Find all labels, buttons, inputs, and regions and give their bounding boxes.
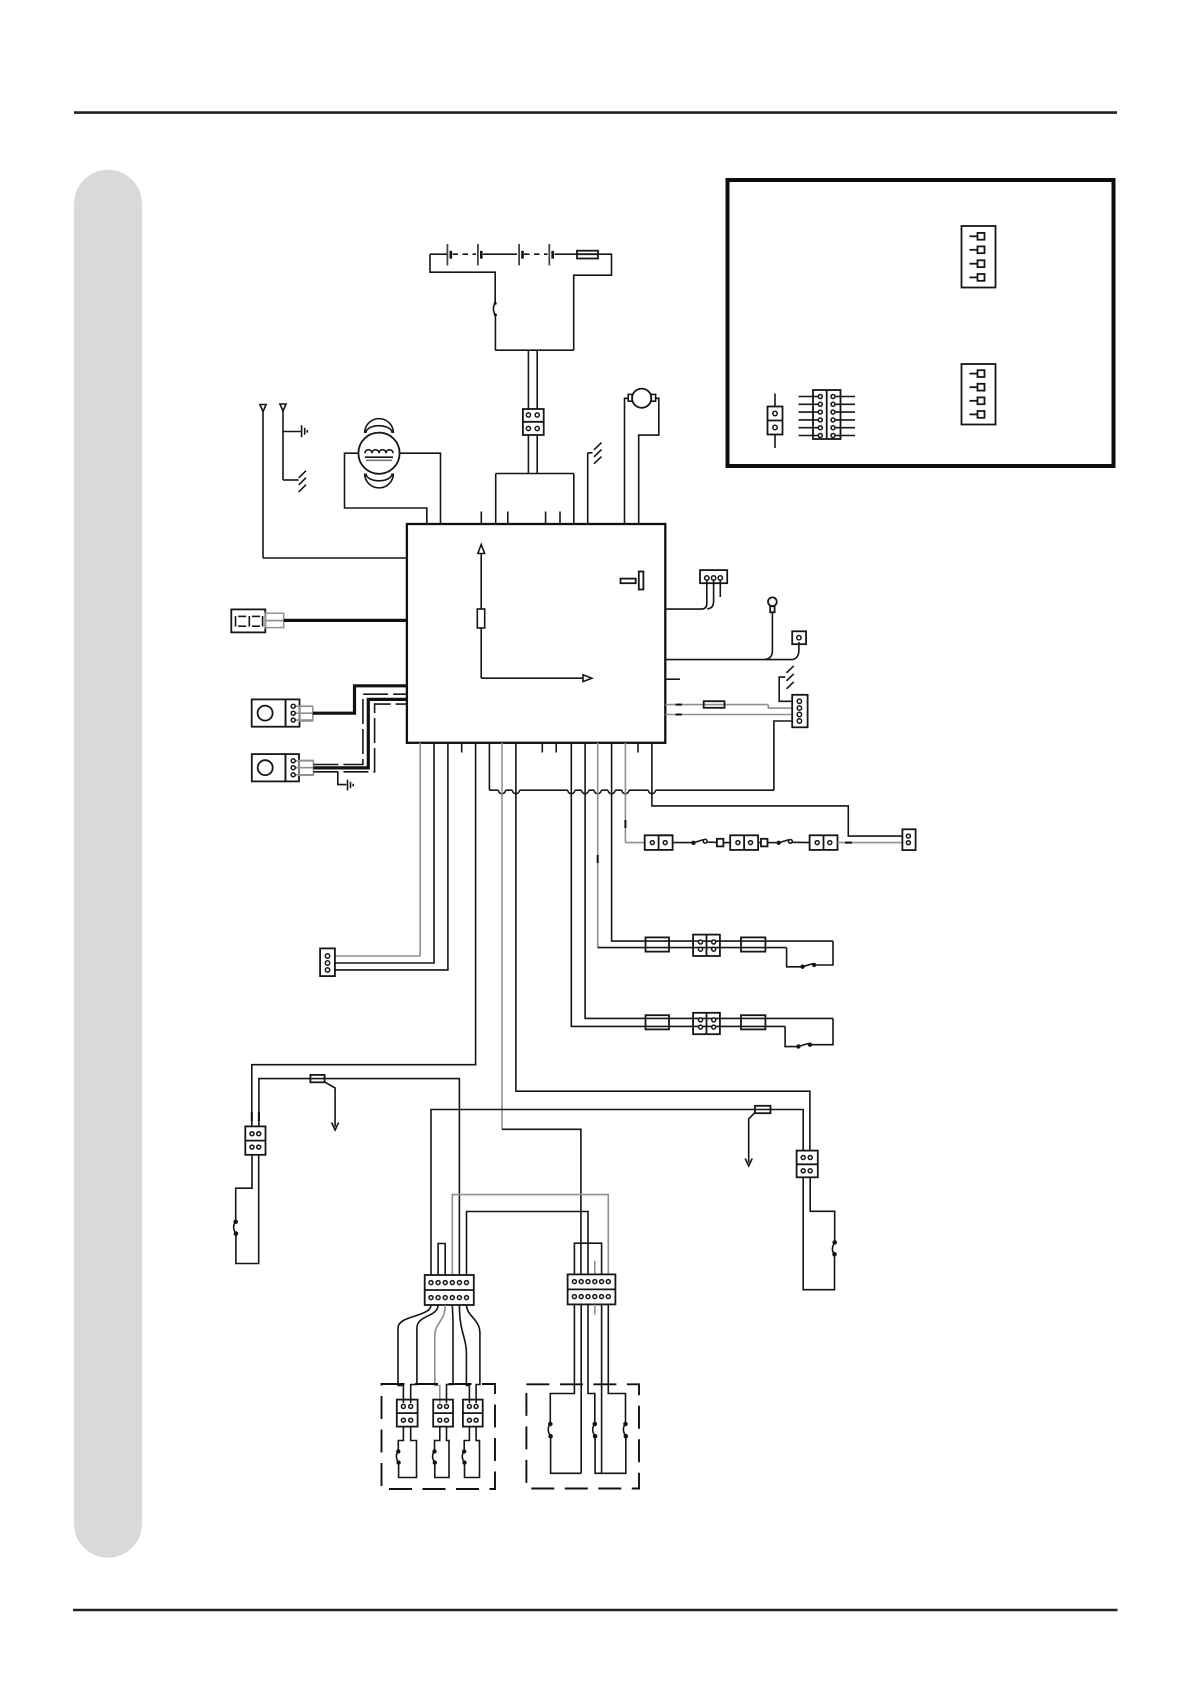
- left sidebar capsule: [74, 170, 142, 1558]
- connector J4 (4-pin right): [792, 695, 807, 728]
- top rule: [74, 111, 1117, 114]
- ground G3: [348, 780, 354, 791]
- indicator lamp LP1: [768, 597, 777, 612]
- wire pin B1 link to block JB2: [502, 1129, 581, 1274]
- wire battery dashed links: [453, 253, 477, 255]
- wire injector loop1 bottom: [551, 1437, 582, 1473]
- wire ECU pin C1 to coil row2 lower: [571, 743, 785, 1027]
- wire row1 upper right leg: [816, 941, 833, 965]
- wire ECU pin A2 to J5: [335, 743, 434, 963]
- solenoid loop SA with switch S8: [396, 1427, 416, 1478]
- battery B1: [430, 244, 577, 265]
- wire right latch loop with switch S7: [803, 1177, 836, 1289]
- wire SEN2 pin2 to ECU (thick): [313, 699, 407, 768]
- wire dark marks above J13: [252, 1112, 259, 1121]
- wire JB2 pin3 to injector loop2: [588, 1304, 595, 1422]
- wire JB1 pin5 to JCc top-left: [459, 1305, 469, 1403]
- connector block JB2 (right 12-pin): [568, 1274, 616, 1304]
- fuse F1 (main fuse): [577, 251, 598, 259]
- wire motor left to ECU: [625, 398, 629, 524]
- arrow continuation A2: [745, 1113, 755, 1167]
- wire SEN2 pin1 to ECU (dashed): [313, 694, 407, 764]
- ground G4 (slashes): [787, 666, 794, 689]
- solenoid connector JBc (2x2): [433, 1400, 453, 1427]
- coil row1 fuse FL1: [646, 937, 670, 951]
- wire JB1 pin2 to JA top-right: [411, 1305, 438, 1403]
- wire R1 step to J4 pin2: [768, 705, 792, 709]
- solenoid connector JCc (2x2): [463, 1400, 483, 1427]
- sensor SEN1: [252, 699, 313, 726]
- wire injector loop3 bottom: [602, 1437, 626, 1473]
- bottom rule: [73, 1609, 1118, 1612]
- connector CN3 (2-pin, inset box): [768, 394, 783, 449]
- connector J5 (3-pin left): [320, 948, 335, 976]
- wire J1 to spread right: [536, 435, 538, 474]
- connector J10 (right end 2-pin): [902, 829, 915, 850]
- connector J13 (left latch 2x2): [245, 1126, 265, 1154]
- wire spread left leg into ECU: [495, 474, 497, 525]
- wire J2 pin1 down: [701, 580, 707, 609]
- switch S5 (coil row2): [797, 1043, 811, 1048]
- wire ECU pin C4 to coil row1 upper: [612, 743, 833, 941]
- wire motor right to ECU: [639, 398, 659, 524]
- wire JB2 pin5 straight down: [601, 1304, 603, 1473]
- wire ANT1 to ECU: [263, 557, 407, 559]
- wire sense line with ground slashes: [588, 443, 602, 524]
- wire fused link L4 to right latch: [431, 1106, 803, 1275]
- wire ECU bus to J3: [665, 659, 792, 661]
- wire JB1 pin4 to JBc top-right: [447, 1305, 454, 1403]
- wire staple left block: [438, 1244, 445, 1276]
- wire ground bracket to J4: [779, 677, 792, 701]
- wire fuse row seg1: [673, 842, 693, 844]
- wire J8 to J10: [838, 842, 903, 844]
- antenna ANT1: [260, 405, 266, 559]
- coil row2 connector J12: [693, 1013, 720, 1034]
- connector J6 (fuse row left 2-pin): [645, 835, 673, 850]
- wire ECU to J4 pin3: [665, 714, 792, 716]
- wire SEN2 pin3 to ECU (dashed): [313, 704, 407, 772]
- wire JB2 pin6 to injector loop3: [608, 1304, 625, 1422]
- wire J2 pin3 stub: [719, 580, 721, 597]
- wire ECU pin C6 to J10 top: [652, 743, 903, 836]
- wire switch to bus: [494, 316, 496, 350]
- ECU internal jumper symbol: [621, 572, 644, 590]
- wire ECU to J2 pins: [665, 608, 702, 610]
- wire staple right block: [574, 1243, 601, 1274]
- wire bus horizontal: [495, 349, 574, 351]
- display module DS1: [231, 609, 283, 632]
- wire ECU pin C2 to coil row2 upper: [585, 743, 833, 1019]
- wire drop right to connector J1: [536, 350, 538, 409]
- ECU control unit U1: [407, 524, 665, 743]
- wire display to ECU (thick): [284, 619, 407, 622]
- wire JB1 pin1 to JA top-left: [398, 1305, 431, 1403]
- wire JB2 pin4 gray stub: [594, 1304, 596, 1314]
- coil row2 fuse FL3: [646, 1015, 670, 1029]
- wire ECU pin A4 to brake loop left: [252, 743, 476, 1127]
- wire battery left down: [430, 254, 495, 302]
- connector CN4 (12-pin, inset box): [799, 390, 856, 439]
- switch S2 (fuse row): [692, 839, 707, 844]
- wire ECU pin B1 (gray) long to relay block: [501, 743, 503, 1130]
- wire JB2 pin2 straight down: [580, 1304, 582, 1473]
- ECU internal axis horizontal arrow: [481, 675, 592, 682]
- horn H1: [358, 419, 399, 488]
- connector CN1 (4-pin, inset box top): [962, 226, 996, 288]
- wire to fuse F2: [707, 841, 717, 843]
- connector J14 (right latch 2x2): [797, 1151, 818, 1178]
- wire ECU pin A5 hop line to J4 pin4: [489, 721, 792, 794]
- dashed enclosure left: [382, 1384, 496, 1489]
- injector loop1 switch S11: [548, 1423, 552, 1438]
- wire ECU pin A3 to J5: [335, 743, 448, 970]
- wire gray link L6: [452, 1195, 608, 1275]
- wire J1 to spread: [527, 435, 529, 474]
- wire spread bar: [496, 473, 574, 475]
- wire ANT2 branch to ground: [283, 431, 301, 433]
- wire ANT2 to ground G2: [283, 479, 299, 481]
- resistor R1: [665, 701, 768, 708]
- ground G1: [302, 425, 308, 437]
- fuse F2 (small): [717, 839, 724, 847]
- wire JB1 pin3 (gray) to JBc top-left: [435, 1305, 445, 1403]
- ECU right stub pin: [665, 678, 680, 680]
- arrow continuation A1: [325, 1082, 339, 1130]
- wire S3 to J8: [792, 841, 809, 843]
- wire link L7: [467, 1212, 589, 1276]
- wire dark marks: [676, 705, 683, 715]
- connector J8 (fuse row right 2-pin): [810, 835, 838, 850]
- wire J2 pin2 down: [707, 580, 713, 609]
- ground G2 (slashes): [299, 471, 306, 492]
- wire brake feed L2 with fuse F4: [259, 1075, 460, 1275]
- wire row2 lower right leg: [785, 1026, 797, 1046]
- wire battery right to junction: [574, 254, 612, 350]
- wire to J7: [723, 842, 730, 844]
- wire F3 to S3: [768, 842, 778, 844]
- wire injector loop2 bottom: [595, 1437, 602, 1473]
- wire lamp down to bus: [765, 612, 773, 659]
- wire gray stub right block: [594, 1261, 596, 1275]
- solenoid loop SC with switch S10: [462, 1427, 479, 1478]
- connector J7 (fuse row mid 2-pin): [730, 835, 758, 850]
- connector J3 (single pin): [792, 631, 806, 644]
- wire JB1 pin6 to JCc top-right: [467, 1305, 480, 1403]
- motor M1: [628, 389, 655, 408]
- solenoid loop SB with switch S9: [433, 1427, 449, 1478]
- connector block JB1 (left 12-pin): [425, 1275, 474, 1305]
- ECU stub pins top: [481, 512, 560, 525]
- wire J7 to F3: [758, 842, 761, 844]
- coil row1 connector J11: [693, 935, 720, 956]
- solenoid connector JA (2x2): [397, 1400, 418, 1427]
- wire row2 upper right leg: [812, 1018, 833, 1044]
- coil row2 fuse FL4: [741, 1015, 765, 1029]
- wire horn right to ECU top: [400, 453, 441, 524]
- switch S4 (coil row1): [801, 964, 815, 969]
- wire left latch loop with switch S6: [234, 1155, 259, 1264]
- wire horn left to ECU top: [345, 453, 427, 524]
- wire SEN1 to ECU (thick): [313, 686, 407, 713]
- wire row1 lower right leg: [787, 948, 802, 967]
- wire bus up to J3: [793, 642, 799, 660]
- ECU internal sensor rect: [477, 609, 484, 628]
- wire spread right leg into ECU: [573, 474, 575, 525]
- wire dark mark: [845, 842, 852, 844]
- connector J2 (ECU right 3-pin): [700, 570, 727, 583]
- injector loop2 switch S12: [593, 1423, 597, 1438]
- coil row1 fuse FL2: [741, 937, 765, 951]
- ECU internal axis vertical arrow: [478, 545, 485, 679]
- antenna ANT2: [280, 404, 286, 480]
- switch S1 (main switch): [493, 302, 496, 317]
- wire ECU pin C3 (gray) to coil row1 lower: [598, 743, 787, 948]
- connector J1 (battery 2x2): [523, 409, 544, 435]
- fuse F3 (small): [761, 839, 768, 847]
- connector CN2 (4-pin, inset box bottom): [962, 364, 996, 425]
- wire SEN2 ground tap: [338, 772, 347, 785]
- battery B1 cell plates: [447, 244, 552, 265]
- wire JB2 pin1 to injector loop1: [550, 1304, 574, 1422]
- inset box (top right): [728, 180, 1114, 466]
- switch S3 (fuse row): [777, 840, 792, 845]
- ECU bottom stub pins: [462, 743, 638, 753]
- sensor SEN2: [252, 754, 314, 781]
- wire drop left to connector J1: [527, 350, 529, 409]
- wire ECU pin C5 (gray) to fuse row: [625, 743, 644, 843]
- injector loop3 switch S13: [623, 1423, 627, 1438]
- wire dark marks on vertical grays: [598, 820, 626, 863]
- wire ECU pin B2 long to right latch: [516, 743, 810, 1151]
- wire ECU pin A1 (gray) to J5: [335, 743, 420, 956]
- dashed enclosure right: [526, 1384, 639, 1488]
